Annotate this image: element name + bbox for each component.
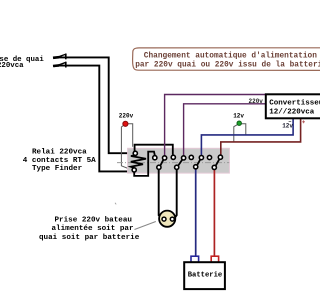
socket body <box>159 211 175 227</box>
converter box <box>266 94 320 118</box>
svg-text:Batterie: Batterie <box>188 271 223 279</box>
contact 4 arm <box>216 159 219 165</box>
svg-text:alimentée soit par: alimentée soit par <box>52 225 134 233</box>
svg-text:Relai 220vca: Relai 220vca <box>32 149 87 157</box>
svg-text:quai soit par batterie: quai soit par batterie <box>39 234 140 242</box>
minus mark <box>289 120 292 122</box>
coil wire to contact 2 NC <box>135 145 173 155</box>
svg-text:Convertisseur: Convertisseur <box>269 100 320 108</box>
battery terminal plus <box>211 256 218 262</box>
svg-text:4 contacts RT 5A: 4 contacts RT 5A <box>23 157 96 165</box>
LED 220v <box>123 121 128 126</box>
svg-text:220v: 220v <box>119 113 134 120</box>
battery box <box>184 262 225 289</box>
svg-text:12v: 12v <box>233 113 244 120</box>
pointer to socket <box>135 222 156 230</box>
contact 4 NC <box>207 155 211 159</box>
contact 2 arm <box>178 160 182 166</box>
contact 1 NO <box>163 156 167 160</box>
svg-text:220vca: 220vca <box>0 62 24 70</box>
socket pin left <box>162 217 166 221</box>
contact 2 NO <box>182 156 186 160</box>
socket label <box>39 216 140 242</box>
contact 2 common <box>175 165 179 169</box>
arrow quai L head <box>53 54 66 60</box>
svg-text:220v: 220v <box>249 98 264 105</box>
svg-text:12v: 12v <box>282 123 293 130</box>
wire quai N <box>58 66 132 172</box>
coil terminal top <box>133 151 137 155</box>
svg-text:Prise 220v bateau: Prise 220v bateau <box>55 216 133 224</box>
caption bubble border <box>133 48 320 71</box>
plus mark <box>302 120 305 123</box>
label relai <box>23 149 96 173</box>
wire 12v minus converter to contact3 NO <box>201 118 293 155</box>
contact 3 common wire to battery <box>195 169 197 257</box>
svg-text:Type Finder: Type Finder <box>32 165 83 173</box>
socket pin right <box>170 217 174 221</box>
contact 4 common wire to battery <box>213 169 215 256</box>
wire 12v plus converter to contact4 NO <box>221 118 301 155</box>
stray mark <box>115 203 116 205</box>
LED 220v leads <box>121 126 130 170</box>
svg-text:par 220v quai ou 220v issu de: par 220v quai ou 220v issu de la batteri… <box>135 62 320 70</box>
mechanical link dash-dot <box>117 162 229 164</box>
contact 1 arm <box>160 160 163 166</box>
contact 4 NO <box>218 155 222 159</box>
wire quai L <box>58 57 133 153</box>
LED 12v <box>237 121 241 125</box>
relay contact block <box>128 148 230 173</box>
caption text <box>135 53 320 70</box>
LED 12v leads <box>234 125 238 142</box>
contact 1 common wire to socket <box>159 169 162 218</box>
coil zigzag <box>131 155 146 168</box>
contact 3 common <box>194 165 198 169</box>
contact 2 NC <box>171 155 175 159</box>
contact 1 NC <box>153 156 157 160</box>
coil bottom to contact 1 NC bracket <box>134 152 155 176</box>
contact 3 NO <box>199 156 203 160</box>
contact 3 NC <box>189 155 193 159</box>
wire 220v converter to contact2 NO <box>184 104 266 156</box>
arrow quai N head <box>53 62 66 68</box>
contact 1 common <box>157 165 161 169</box>
contact 4 common <box>212 165 216 169</box>
svg-text:Changement automatique d'alime: Changement automatique d'alimentation <box>144 53 317 61</box>
svg-text:12//220vca: 12//220vca <box>269 109 315 117</box>
converter text <box>269 100 320 117</box>
label prise de quai <box>0 56 44 70</box>
coil terminal bottom <box>132 168 136 172</box>
contact 2 common wire to socket <box>174 169 176 218</box>
battery terminal minus <box>191 256 199 262</box>
contact 3 arm <box>197 160 200 166</box>
wire 220v converter to contact1 NO <box>165 95 266 156</box>
